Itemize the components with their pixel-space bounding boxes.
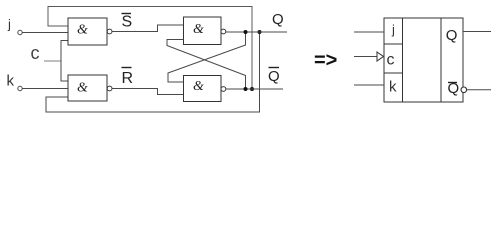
divider c/k cells: [384, 72, 403, 74]
svg-text:c: c: [31, 43, 40, 63]
svg-text:j: j: [391, 22, 395, 37]
NAND gate U4 (latch bottom): [184, 76, 226, 102]
svg-text:k: k: [389, 79, 397, 96]
divider left column: [402, 18, 404, 102]
wire k to gate U2: [23, 88, 69, 90]
divider right column: [440, 18, 442, 102]
svg-text:S: S: [122, 14, 133, 31]
NAND gate U1: [68, 18, 112, 45]
wire Sbar (U1 out to U3 in): [112, 25, 184, 32]
svg-text:Q: Q: [448, 80, 460, 97]
input terminal k: [18, 86, 22, 90]
wire j to gate U1: [23, 32, 69, 34]
wire c stub: [44, 60, 61, 62]
svg-text:Q: Q: [268, 68, 280, 85]
pin wire k: [354, 84, 384, 86]
junction dot on Q wire: [244, 30, 248, 34]
junction dot on Qbar wire: [244, 87, 248, 91]
svg-text:&: &: [193, 79, 204, 94]
svg-text:&: &: [77, 81, 88, 96]
wire Qbar output: [226, 88, 283, 90]
pin wire j: [354, 31, 384, 33]
pin wire Q: [463, 31, 491, 33]
svg-text:R: R: [122, 70, 134, 87]
label Qbar (latch output): [268, 68, 280, 86]
label Rbar: [122, 68, 134, 88]
junction dot Q feedback: [258, 30, 262, 34]
junction dot Qbar feedback: [250, 87, 254, 91]
svg-text:Q: Q: [446, 27, 458, 44]
pin wire c: [354, 56, 377, 58]
svg-text:&: &: [77, 23, 88, 38]
wire top feedback (Qbar to U1): [48, 7, 252, 90]
clock triangle: [377, 52, 384, 61]
wire cross-couple Q to U4 input: [168, 32, 246, 82]
NAND gate U2: [68, 75, 112, 101]
wire cross-couple Qbar to U3 input: [167, 40, 246, 90]
wire Rbar (U2 out to U4 in): [112, 89, 184, 95]
pin wire Qbar: [467, 89, 491, 91]
divider j/c cells: [384, 43, 403, 45]
NAND gate U3 (latch top): [184, 17, 226, 45]
svg-text:k: k: [7, 73, 15, 90]
wire c vertical to both gates: [61, 41, 68, 82]
svg-text:Q: Q: [272, 11, 284, 28]
svg-text:&: &: [193, 22, 204, 37]
wire Q output: [226, 31, 287, 33]
flip-flop symbol box: [384, 18, 463, 102]
input terminal j: [18, 30, 22, 34]
output bubble Qbar: [461, 87, 467, 93]
svg-text:=>: =>: [314, 50, 337, 72]
pin label Qbar: [448, 80, 460, 97]
wire bottom feedback (Q to U2): [46, 32, 260, 112]
svg-text:j: j: [7, 17, 11, 32]
svg-text:c: c: [387, 52, 395, 69]
label Sbar: [122, 14, 133, 31]
